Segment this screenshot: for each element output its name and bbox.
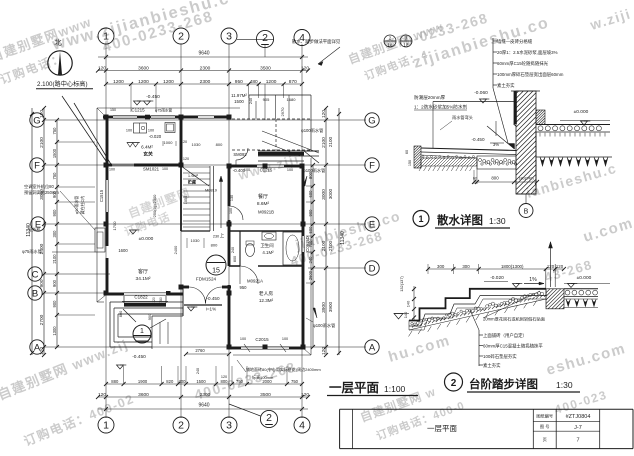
axis bubble right A (365, 340, 379, 354)
axis bubble left B (28, 286, 42, 300)
svg-text:950: 950 (235, 79, 243, 85)
left dimension column values (43, 108, 45, 355)
detail 2 step profile (409, 289, 546, 321)
svg-text:130: 130 (230, 195, 234, 201)
column F2b (263, 164, 268, 169)
svg-text:-0.400: -0.400 (233, 168, 246, 173)
axis bubble top 2 (173, 28, 189, 44)
column E1 (104, 222, 109, 227)
svg-text:预留洞离地250mm: 预留洞离地250mm (24, 189, 59, 196)
column A2b (263, 345, 268, 350)
detail 1 waterproof layer on wall (514, 91, 517, 124)
svg-text:A: A (369, 342, 376, 353)
svg-text:12.3M²: 12.3M² (259, 298, 274, 303)
right dimension outer 11340 (338, 108, 340, 355)
svg-text:1200: 1200 (163, 79, 174, 85)
svg-text:1200: 1200 (113, 79, 124, 85)
svg-text:1200: 1200 (138, 79, 149, 85)
detail 2 pebble bed under steps (409, 289, 546, 326)
dimension extension lines left (57, 141, 95, 143)
svg-text:一层平面: 一层平面 (427, 424, 457, 433)
svg-text:1200: 1200 (266, 79, 277, 85)
svg-text:180(240): 180(240) (518, 177, 534, 181)
svg-text:132(137): 132(137) (399, 276, 404, 292)
svg-text:100: 100 (148, 129, 154, 133)
window C1515 left wall (105, 180, 107, 212)
svg-text:±0.000: ±0.000 (139, 236, 154, 242)
detail 1 section mark B (525, 194, 527, 203)
axis bubble bottom 1 (98, 417, 114, 433)
detail reference circle 1 at terrace (133, 325, 151, 343)
svg-text:-0.020: -0.020 (490, 275, 504, 281)
svg-text:-0.450: -0.450 (146, 94, 160, 100)
svg-text:800: 800 (491, 176, 499, 181)
exterior wall left axis 1 (106, 117, 109, 180)
svg-text:140: 140 (406, 300, 411, 307)
svg-text:±0.000: ±0.000 (574, 109, 589, 115)
stair break line (181, 166, 209, 186)
svg-text:870: 870 (289, 79, 297, 85)
detail 1 floor upstand hatch (536, 110, 545, 125)
svg-text:820: 820 (166, 379, 174, 384)
svg-text:2400: 2400 (173, 245, 178, 254)
column G3 (179, 115, 184, 120)
svg-text:-0.060: -0.060 (474, 90, 488, 96)
detail 1 leader stack (492, 38, 494, 88)
svg-text:120: 120 (221, 375, 227, 379)
detail 1 apron left end (414, 146, 421, 168)
axis bubble top 2a (256, 30, 273, 47)
svg-text:FDM1524: FDM1524 (196, 277, 217, 282)
svg-text:750: 750 (236, 379, 244, 384)
top dimension row 3 (106, 83, 302, 85)
svg-text:-0.020: -0.020 (149, 134, 162, 139)
svg-text:1900: 1900 (138, 379, 148, 384)
svg-text:3500: 3500 (260, 392, 271, 398)
svg-text:老人房: 老人房 (259, 290, 274, 297)
right dimension column values (325, 108, 327, 355)
svg-text:3500: 3500 (260, 65, 271, 71)
window in G wall right (198, 115, 214, 117)
svg-text:34.1M²: 34.1M² (136, 276, 151, 282)
svg-text:2: 2 (266, 412, 272, 424)
detail 2 soil hatch under steps (409, 331, 413, 337)
svg-text:2970: 2970 (280, 107, 285, 117)
axis bubble right D (365, 261, 379, 275)
dimension extension lines top (130, 84, 132, 112)
svg-text:900: 900 (52, 279, 57, 287)
svg-text:2300: 2300 (200, 79, 211, 85)
svg-text:2100: 2100 (52, 254, 57, 264)
column A4 (301, 345, 306, 350)
svg-text:7: 7 (576, 438, 579, 444)
svg-text:1500: 1500 (196, 379, 206, 384)
cabinet in foyer (134, 123, 147, 133)
svg-text:2100: 2100 (39, 137, 45, 148)
svg-text:1300: 1300 (52, 326, 57, 336)
svg-text:SM1021: SM1021 (143, 167, 160, 172)
svg-text:600: 600 (308, 190, 313, 198)
dimension extension lines bottom (123, 366, 125, 384)
axis bubble top 3 (221, 28, 237, 44)
svg-text:100: 100 (229, 208, 233, 214)
svg-text:藏在柱C内: 藏在柱C内 (80, 196, 85, 214)
exterior wall A axis bottom (227, 347, 241, 350)
terrace slab edge (152, 315, 183, 317)
detail 1 wall section hatched (516, 91, 536, 194)
axis bubble top 1 (98, 28, 114, 44)
detail 2 ground hatch right (566, 299, 570, 307)
svg-text:100碎石垫层夯实: 100碎石垫层夯实 (483, 353, 517, 360)
detail 2 top dimension row (428, 268, 564, 270)
svg-text:3000: 3000 (321, 189, 327, 200)
detail 1 gravel bed with pebbles (477, 156, 516, 169)
bathroom door M0921A (229, 265, 240, 267)
axis bubble bottom 3 (221, 417, 237, 433)
svg-text:2700: 2700 (39, 314, 45, 325)
svg-text:1:100: 1:100 (384, 384, 406, 394)
bathroom fixtures: toilet (246, 244, 255, 257)
svg-text:C0915D: C0915D (305, 236, 310, 251)
svg-text:1680: 1680 (287, 97, 297, 102)
svg-text:1500: 1500 (52, 148, 57, 158)
svg-text:3000: 3000 (328, 188, 333, 199)
svg-text:SM092: SM092 (233, 152, 247, 157)
axis bubble bottom 2a (260, 410, 277, 427)
detail 2 masonry pier hatched (546, 289, 564, 309)
bathroom wall E axis right (229, 230, 303, 232)
column F2 (179, 163, 184, 168)
detail 1 vertical dim 450 (495, 121, 497, 136)
detail 1 bottom dim (474, 181, 537, 183)
svg-text:120: 120 (301, 65, 309, 71)
svg-text:餐厅: 餐厅 (258, 193, 268, 200)
svg-text:100: 100 (162, 167, 168, 171)
axis bubble right F (365, 158, 379, 172)
column B2 (166, 291, 171, 296)
stair left wall axis 2 (180, 117, 183, 165)
bay window sill band outside B wall (124, 303, 166, 307)
rear terrace dashed outline (249, 94, 311, 96)
wall F axis right part (229, 165, 257, 168)
svg-text:墙缝—皮砖分格缝: 墙缝—皮砖分格缝 (497, 38, 533, 45)
axis bubble bottom 4 (294, 417, 310, 433)
axis bubble right E (365, 217, 379, 231)
interior wall axis 3 vertical (228, 166, 231, 206)
svg-text:1700: 1700 (112, 221, 117, 231)
svg-text:散水详图: 散水详图 (437, 213, 483, 227)
stair up arrow (220, 176, 222, 228)
svg-text:C: C (32, 269, 39, 280)
svg-text:φ100雨水管: φ100雨水管 (303, 167, 325, 174)
svg-text:J-7: J-7 (574, 425, 582, 431)
svg-text:120: 120 (39, 110, 45, 118)
svg-text:240: 240 (196, 368, 200, 374)
svg-text:φ75雨水管: φ75雨水管 (22, 248, 42, 255)
title block table (532, 409, 534, 448)
entry wall with FDM1524 door (182, 286, 189, 289)
detail 2 left vertical dims (413, 286, 415, 321)
window C1215 left in G wall (113, 115, 137, 117)
window C0915D right wall (301, 236, 303, 252)
step arrows terrace (159, 322, 161, 344)
bottom dimension row 2 (98, 396, 308, 398)
svg-text:800: 800 (211, 243, 218, 248)
detail 2 leader stack (478, 330, 480, 366)
svg-text:120: 120 (183, 157, 189, 161)
svg-text:300: 300 (52, 230, 57, 238)
detail 2 pier extension line (545, 269, 547, 288)
window C1215 in F wall (257, 164, 284, 166)
svg-text:100: 100 (240, 337, 246, 341)
detail 1 wall top break (511, 90, 540, 92)
svg-text:2: 2 (262, 32, 268, 44)
exterior wall right axis 4 (302, 166, 305, 236)
svg-text:#ZTJ0804: #ZTJ0804 (566, 414, 591, 420)
svg-text:1:30: 1:30 (556, 380, 573, 390)
reference circle 15 (206, 255, 226, 275)
AC unit platform left (95, 228, 105, 252)
svg-text:φ100雨水管: φ100雨水管 (313, 322, 335, 329)
svg-text:120: 120 (301, 392, 309, 398)
right dimension inner values (312, 165, 314, 347)
terrace corner diagonal (123, 309, 136, 322)
svg-text:2760: 2760 (195, 348, 205, 353)
svg-text:150: 150 (408, 160, 412, 166)
canopy diagonals (262, 131, 319, 153)
svg-text:i=1%: i=1% (206, 307, 216, 312)
svg-text:800: 800 (216, 142, 223, 147)
svg-text:M0921B: M0921B (258, 210, 274, 215)
svg-text:800: 800 (233, 256, 237, 262)
svg-text:防潮层20mm厚: 防潮层20mm厚 (414, 94, 446, 101)
svg-text:素土夯实: 素土夯实 (483, 362, 501, 369)
svg-text:贮藏: 贮藏 (187, 179, 196, 185)
terrace steps outline (110, 301, 183, 303)
detail 2 sub-base hatch band (409, 296, 546, 331)
svg-text:1.9M²: 1.9M² (188, 173, 199, 178)
column A3 (227, 345, 232, 350)
svg-text:240: 240 (231, 247, 235, 253)
column F4 (300, 164, 305, 169)
svg-text:11340: 11340 (340, 231, 346, 245)
svg-text:±0.000: ±0.000 (577, 275, 592, 281)
exterior wall G axis top (103, 116, 113, 119)
svg-text:800: 800 (118, 310, 123, 317)
entry platform line (184, 304, 222, 306)
svg-text:120: 120 (321, 110, 327, 118)
svg-text:2100: 2100 (328, 240, 333, 251)
door SM0921 arc at F wall (235, 160, 237, 166)
svg-text:500: 500 (308, 226, 313, 234)
detail 1 rubble under apron (421, 158, 477, 166)
dimension extension lines right (306, 185, 313, 187)
window C1822 opening lines (124, 292, 166, 294)
svg-text:950: 950 (240, 285, 248, 290)
column G1 (104, 115, 109, 120)
apron line around building (97, 107, 240, 109)
wall B axis living room bottom (104, 293, 124, 296)
svg-text:11.97M²: 11.97M² (231, 93, 247, 98)
svg-text:100: 100 (126, 129, 132, 133)
svg-text:750: 750 (52, 127, 57, 135)
svg-text:900: 900 (52, 300, 57, 308)
svg-text:100mm厚碎石垫层宽出面层60mm: 100mm厚碎石垫层宽出面层60mm (497, 71, 564, 78)
svg-text:卫生间: 卫生间 (260, 242, 273, 249)
stair treads (183, 166, 210, 168)
plan grid axis lines (105, 44, 107, 418)
svg-text:60: 60 (405, 150, 409, 154)
svg-text:9640: 9640 (198, 403, 209, 409)
svg-text:1: 1 (140, 328, 144, 335)
svg-text:900: 900 (39, 279, 45, 287)
svg-text:上: 上 (220, 232, 225, 238)
svg-text:1000: 1000 (164, 140, 174, 145)
svg-text:空调室外机位80: 空调室外机位80 (24, 183, 54, 190)
svg-text:905: 905 (263, 97, 270, 102)
svg-text:9640: 9640 (198, 51, 209, 57)
stair bottom wall (181, 230, 210, 232)
column C3 (227, 291, 232, 296)
svg-text:1: 1 (418, 214, 423, 224)
svg-text:北: 北 (54, 38, 62, 47)
svg-text:图纸编号: 图纸编号 (536, 413, 553, 420)
window C1215 right in G wall (151, 115, 175, 117)
svg-text:2.100(路中心标高): 2.100(路中心标高) (37, 80, 88, 88)
column G2 (145, 115, 150, 120)
detail 1 floor slab right (536, 124, 610, 126)
svg-text:18: 18 (404, 43, 409, 48)
svg-text:E: E (369, 219, 375, 230)
svg-text:900: 900 (52, 209, 57, 217)
svg-text:素土夯实: 素土夯实 (497, 82, 515, 89)
svg-text:2100: 2100 (321, 240, 327, 251)
svg-text:φ50雨水管: φ50雨水管 (74, 196, 79, 215)
svg-text:C2015: C2015 (255, 337, 269, 342)
svg-text:玄关: 玄关 (143, 151, 153, 158)
svg-text:3: 3 (226, 31, 232, 43)
svg-text:240: 240 (249, 98, 253, 104)
detail 1 ticks under slab (539, 133, 541, 137)
column F3 (227, 164, 232, 169)
svg-text:F: F (369, 160, 375, 171)
svg-text:250(9)=2000: 250(9)=2000 (152, 194, 157, 218)
svg-text:室外机: 室外机 (28, 226, 41, 233)
detail 1 ground hatch right (540, 157, 545, 166)
svg-text:G: G (368, 115, 375, 126)
stair rail (209, 166, 211, 231)
column B1 (104, 291, 109, 296)
svg-text:1800(1300): 1800(1300) (501, 264, 524, 269)
detail 2 title (445, 373, 463, 391)
axis bubble left F (30, 158, 44, 172)
window C2015 in A wall (241, 346, 289, 348)
svg-text:客厅: 客厅 (138, 268, 148, 275)
svg-text:140: 140 (403, 311, 408, 318)
detail 2 left level triangle (394, 314, 403, 320)
top dimension row 2 (98, 70, 308, 72)
bottom dimension row 1 (106, 383, 302, 385)
svg-text:120: 120 (321, 347, 327, 355)
svg-text:480: 480 (250, 79, 258, 85)
svg-text:4: 4 (299, 420, 305, 432)
svg-text:120: 120 (556, 264, 564, 269)
axis bubble top 4 (294, 30, 310, 46)
svg-text:2100: 2100 (321, 137, 327, 148)
svg-text:2: 2 (451, 378, 457, 389)
svg-text:1500: 1500 (234, 99, 244, 104)
svg-text:120: 120 (39, 347, 45, 355)
svg-text:φ100雨水管: φ100雨水管 (301, 127, 323, 134)
svg-text:800: 800 (221, 379, 229, 384)
svg-text:3: 3 (226, 420, 232, 432)
svg-text:400: 400 (179, 379, 187, 384)
svg-text:100: 100 (287, 168, 293, 172)
svg-text:2: 2 (178, 420, 184, 432)
svg-text:300: 300 (462, 264, 470, 269)
svg-text:2300: 2300 (200, 65, 211, 71)
svg-text:120: 120 (181, 140, 187, 144)
svg-text:900: 900 (308, 209, 313, 217)
axis bubble left C (28, 267, 42, 281)
svg-text:60: 60 (473, 177, 477, 181)
svg-text:散水、踏步做法平面详见: 散水、踏步做法平面详见 (292, 38, 341, 45)
entry steps to dining (258, 150, 319, 152)
svg-text:880: 880 (111, 379, 119, 384)
svg-text:60mm厚C15砼随捣随抹光: 60mm厚C15砼随捣随抹光 (497, 60, 549, 67)
svg-text:4.1M²: 4.1M² (262, 250, 274, 255)
svg-text:1030: 1030 (192, 142, 202, 147)
svg-text:8.6M²: 8.6M² (257, 201, 270, 207)
column E4 (301, 222, 306, 227)
svg-text:750: 750 (291, 379, 299, 384)
svg-text:2100: 2100 (328, 136, 333, 147)
svg-text:1030: 1030 (191, 238, 201, 243)
svg-text:铺地面砖80(中心用实际拼花)周边2400mm: 铺地面砖80(中心用实际拼花)周边2400mm (246, 366, 321, 372)
svg-text:D: D (369, 263, 376, 274)
svg-text:M0921A: M0921A (247, 279, 263, 284)
bottom dimension 9640 (98, 408, 308, 410)
bathroom fixtures: bathtub (283, 232, 302, 265)
svg-text:B: B (524, 209, 529, 216)
svg-text:1: 1 (103, 420, 109, 432)
svg-text:-0.450: -0.450 (471, 137, 484, 142)
svg-text:230: 230 (213, 235, 219, 239)
svg-text:150: 150 (110, 108, 116, 112)
svg-text:台阶踏步详图: 台阶踏步详图 (469, 377, 538, 391)
axis bubble bottom 2 (173, 417, 189, 433)
svg-text:20厚1：2.5水泥砂浆,面层坡3%: 20厚1：2.5水泥砂浆,面层坡3% (497, 49, 558, 56)
svg-text:一层平面: 一层平面 (329, 381, 380, 395)
svg-text:1050: 1050 (184, 196, 188, 204)
svg-text:上面铺砖（用户自定）: 上面铺砖（用户自定） (483, 332, 527, 339)
detail 1 wall below floor (535, 132, 537, 194)
svg-text:-0.450: -0.450 (132, 354, 146, 360)
svg-text:120: 120 (98, 392, 106, 398)
svg-text:1：2防水砂浆加5%防水剂: 1：2防水砂浆加5%防水剂 (414, 104, 467, 111)
svg-text:1%: 1% (529, 277, 537, 283)
svg-text:3600: 3600 (138, 65, 149, 71)
detail 2 up arrow reference line (550, 242, 552, 287)
svg-text:240: 240 (308, 256, 313, 264)
svg-text:60mm厚C15混凝土随捣随抹平: 60mm厚C15混凝土随捣随抹平 (483, 343, 543, 350)
column E3 (227, 222, 232, 227)
column G4 (227, 115, 232, 120)
svg-text:M0819: M0819 (205, 188, 217, 193)
foyer level double triangle (127, 143, 139, 148)
apron corner diagonals (97, 108, 107, 118)
dim 2760 at entry (186, 353, 229, 355)
